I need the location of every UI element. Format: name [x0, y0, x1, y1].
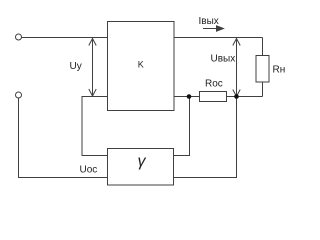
svg-text:Uос: Uос: [80, 165, 98, 176]
measurement arrow Uvyh (double headed): [233, 39, 240, 97]
wire: load branch vertical top: [262, 38, 264, 56]
wire: node A to Roc: [190, 96, 200, 98]
wire: load branch vertical bottom: [262, 82, 264, 97]
current arrow Ivyh: [203, 26, 224, 31]
input terminal bottom: [16, 92, 22, 98]
feedback block gamma: [108, 149, 174, 186]
wire: node B to load: [237, 96, 263, 98]
wire: node A down to gamma input: [174, 97, 190, 156]
svg-text:Uу: Uу: [70, 61, 82, 72]
measurement arrow Uy (double headed): [89, 39, 96, 97]
wire: K output top: [174, 37, 263, 39]
resistor Roc: [200, 92, 227, 102]
input terminal top: [16, 34, 22, 40]
resistor Rn: [256, 56, 269, 83]
wire: K output bottom to node A: [174, 96, 189, 98]
svg-text:Rос: Rос: [205, 79, 223, 90]
wire: bottom terminal to feedback gamma: [19, 98, 108, 178]
svg-text:γ: γ: [138, 153, 147, 170]
svg-text:Iвых: Iвых: [199, 16, 219, 27]
svg-text:K: K: [138, 60, 144, 70]
wire: top input to amplifier K: [22, 37, 108, 39]
wire: node B down and to gamma lower input: [174, 97, 237, 178]
junction node B: [234, 94, 239, 99]
wire: K lower input: [82, 97, 108, 156]
junction node A: [187, 94, 192, 99]
amplifier block K: [108, 22, 175, 111]
svg-text:Uвых: Uвых: [211, 53, 236, 64]
svg-text:Rн: Rн: [273, 65, 286, 76]
wire: Roc to node B: [227, 96, 238, 98]
